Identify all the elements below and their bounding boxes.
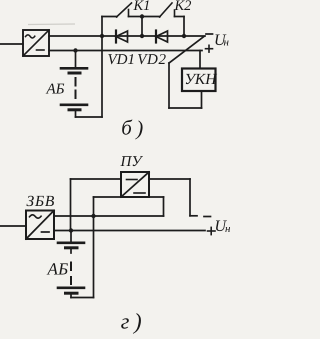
wire: UKN top lead xyxy=(199,51,201,69)
ZBV - mark xyxy=(42,231,50,233)
wire: left riser to bus2 xyxy=(70,179,72,231)
diode VD2 cathode bar xyxy=(155,31,157,43)
faint scan smudge xyxy=(28,23,75,26)
wire: battery bottom return xyxy=(76,116,103,118)
diode VD1 triangle xyxy=(116,31,128,42)
rectifier ~ mark xyxy=(26,35,35,38)
rectifier box xyxy=(23,30,49,56)
wire: vertical battery/bypass riser xyxy=(101,17,103,118)
svg-text:н: н xyxy=(225,223,230,235)
svg-text:VD2: VD2 xyxy=(137,52,166,68)
svg-text:ЗБВ: ЗБВ xyxy=(27,193,56,210)
battery AB cell2 short plate xyxy=(69,108,80,111)
svg-text:АБ: АБ xyxy=(47,260,69,279)
svg-text:К1: К1 xyxy=(133,0,151,14)
wire: UKN bottom lead xyxy=(201,91,203,108)
PU bottom-right - mark xyxy=(134,192,145,194)
diode VD2 triangle xyxy=(156,31,168,42)
svg-text:УКН: УКН xyxy=(185,71,218,88)
wire: battery return riser xyxy=(93,197,95,298)
diode VD1 cathode bar xyxy=(115,31,117,43)
ZBV box xyxy=(26,211,54,240)
switch K2 left wire xyxy=(142,16,160,18)
wire: UKN loop left vertical xyxy=(168,63,170,108)
paper background xyxy=(0,0,230,339)
svg-text:): ) xyxy=(132,309,142,334)
wire: PU right lead xyxy=(149,178,190,180)
svg-text:): ) xyxy=(135,116,143,140)
wire: minus output drop xyxy=(189,179,191,216)
wire: UKN loop bottom xyxy=(169,107,202,109)
PU box xyxy=(121,172,149,197)
junction dots xyxy=(69,14,186,232)
node: right bypass xyxy=(182,34,186,38)
battery AB2 top lead xyxy=(70,231,72,242)
switch K1 fixed contact xyxy=(128,10,130,17)
battery AB2 bottom lead xyxy=(70,293,72,297)
minus sign top output xyxy=(206,33,213,35)
rectifier - mark xyxy=(37,49,45,51)
svg-text:АБ: АБ xyxy=(46,82,65,98)
switch K1 blade xyxy=(117,3,132,17)
wire: bus2 (plus) xyxy=(54,230,205,232)
wire: mid bypass stub xyxy=(141,17,143,37)
battery AB dashed middle xyxy=(75,78,77,86)
wire: AC input to rectifier xyxy=(0,43,23,45)
battery AB bottom lead xyxy=(75,110,77,117)
wire: bus1 right end riser xyxy=(163,197,165,216)
switch K1 right wire xyxy=(129,16,143,18)
switch K2 blade xyxy=(160,3,173,17)
wire: under-PU return xyxy=(94,196,164,198)
battery AB cell1 long plate xyxy=(61,67,87,70)
plus sign bottom output xyxy=(208,230,216,232)
wire: right bypass stub xyxy=(183,17,185,37)
node: minus bus / riser xyxy=(100,34,104,38)
svg-text:ПУ: ПУ xyxy=(120,154,144,170)
battery AB cell2 long plate xyxy=(61,104,87,107)
battery AB2 dashed middle xyxy=(70,248,72,253)
svg-text:г: г xyxy=(121,309,130,334)
battery AB2 cell1 short plate xyxy=(66,246,78,249)
battery AB top lead xyxy=(75,51,77,68)
wire: minus bus (top) xyxy=(49,35,205,37)
battery AB2 cell2 short plate xyxy=(66,292,78,295)
UKN box xyxy=(182,69,216,92)
ZBV ~ mark xyxy=(30,215,42,218)
PU top-left - mark xyxy=(127,179,138,181)
node: battery plus tap xyxy=(73,48,77,52)
wire: minus output tick xyxy=(190,215,197,217)
svg-text:VD1: VD1 xyxy=(108,52,136,68)
node: bus1 / battery return xyxy=(91,214,95,218)
battery AB2 cell2 long plate xyxy=(58,286,84,289)
wire: diagonal to UKN loop xyxy=(169,37,204,64)
switch K1 left stub wire xyxy=(102,16,117,18)
svg-text:б: б xyxy=(121,116,133,140)
node: switch top mid xyxy=(140,14,144,18)
wire: PU left lead xyxy=(71,178,122,180)
plus sign top output xyxy=(206,48,213,50)
minus sign bottom output xyxy=(204,216,211,218)
node: bus2 / battery top xyxy=(69,228,73,232)
wire: bus1 (minus) xyxy=(54,215,164,217)
battery AB2 cell1 long plate xyxy=(58,242,84,245)
switch K2 fixed contact xyxy=(174,10,176,17)
switch K2 right wire xyxy=(175,16,185,18)
wire: bottom return xyxy=(71,297,94,299)
battery AB cell1 short plate xyxy=(69,72,80,75)
wire: AC input to ZBV xyxy=(0,225,26,227)
wire: plus bus xyxy=(49,50,202,52)
svg-text:К2: К2 xyxy=(174,0,192,14)
node: mid bypass xyxy=(140,34,144,38)
svg-text:н: н xyxy=(224,37,230,49)
